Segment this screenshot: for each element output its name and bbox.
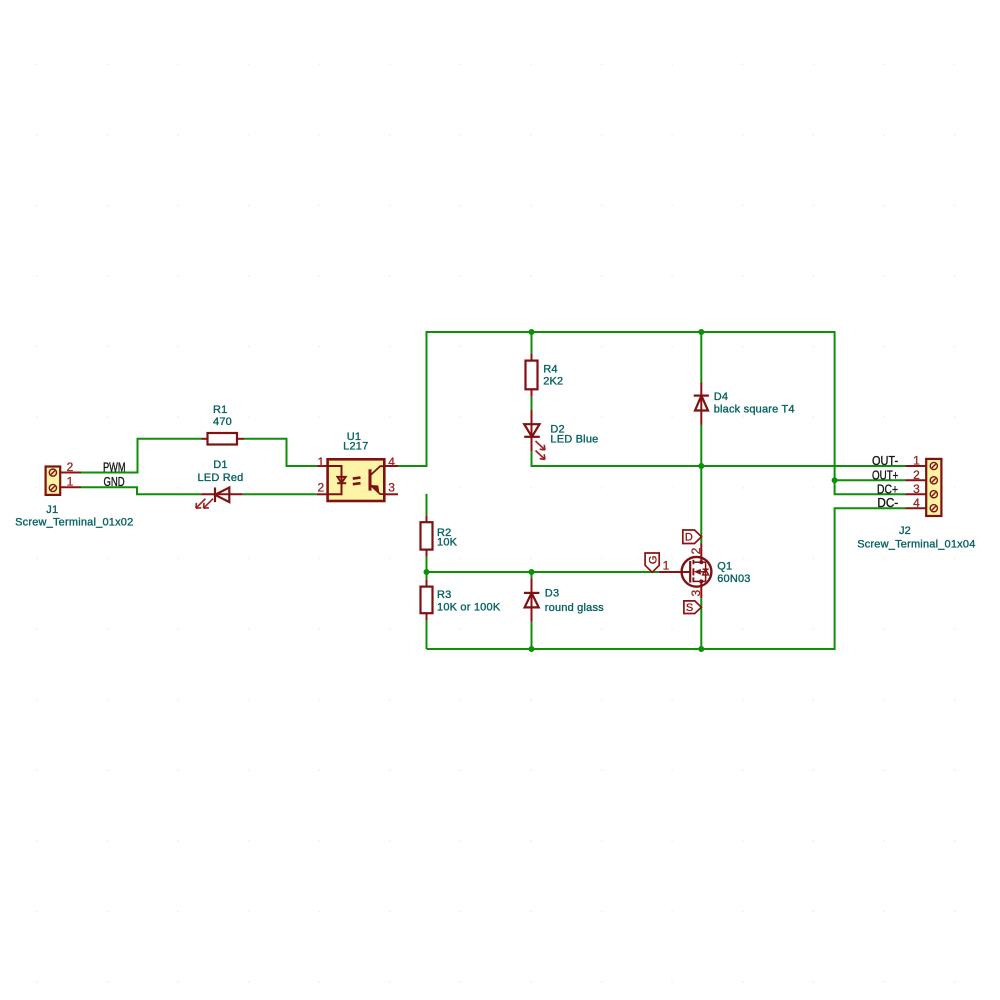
svg-text:2K2: 2K2 [543, 376, 563, 388]
svg-text:DC-: DC- [877, 496, 898, 510]
svg-text:D1: D1 [213, 459, 227, 471]
svg-text:round glass: round glass [545, 602, 604, 614]
svg-text:J1: J1 [46, 504, 58, 516]
svg-text:LED Red: LED Red [197, 472, 243, 484]
svg-text:R3: R3 [437, 589, 451, 601]
svg-text:4: 4 [388, 455, 395, 469]
svg-text:J2: J2 [899, 525, 911, 537]
svg-text:LED Blue: LED Blue [550, 434, 598, 446]
svg-text:1: 1 [317, 455, 324, 469]
svg-text:PWM: PWM [103, 461, 126, 475]
svg-text:black square T4: black square T4 [714, 404, 795, 416]
svg-text:L217: L217 [343, 441, 368, 453]
svg-text:1: 1 [663, 559, 670, 573]
svg-text:1: 1 [67, 474, 74, 488]
svg-text:GND: GND [104, 475, 125, 489]
svg-text:60N03: 60N03 [717, 573, 750, 585]
svg-text:D4: D4 [714, 391, 728, 403]
svg-text:10K or 100K: 10K or 100K [437, 602, 501, 614]
svg-text:470: 470 [213, 416, 232, 428]
svg-text:S: S [686, 602, 693, 614]
svg-text:OUT+: OUT+ [872, 468, 898, 482]
svg-text:DC+: DC+ [877, 482, 898, 496]
svg-text:3: 3 [913, 482, 920, 496]
svg-text:G: G [647, 556, 659, 565]
svg-text:D3: D3 [545, 587, 559, 599]
svg-text:2: 2 [689, 547, 703, 554]
svg-text:R4: R4 [543, 364, 557, 376]
svg-text:3: 3 [388, 481, 395, 495]
svg-text:10K: 10K [437, 537, 458, 549]
svg-text:Screw_Terminal_01x02: Screw_Terminal_01x02 [15, 517, 133, 529]
svg-text:1: 1 [913, 454, 920, 468]
svg-text:2: 2 [913, 468, 920, 482]
svg-text:Screw_Terminal_01x04: Screw_Terminal_01x04 [857, 539, 975, 551]
svg-text:D: D [685, 532, 693, 544]
svg-text:2: 2 [67, 460, 74, 474]
svg-text:4: 4 [913, 496, 920, 510]
svg-text:3: 3 [689, 590, 703, 597]
svg-text:Q1: Q1 [717, 560, 732, 572]
svg-text:OUT-: OUT- [872, 454, 898, 468]
svg-text:2: 2 [317, 481, 324, 495]
svg-text:R1: R1 [213, 404, 227, 416]
